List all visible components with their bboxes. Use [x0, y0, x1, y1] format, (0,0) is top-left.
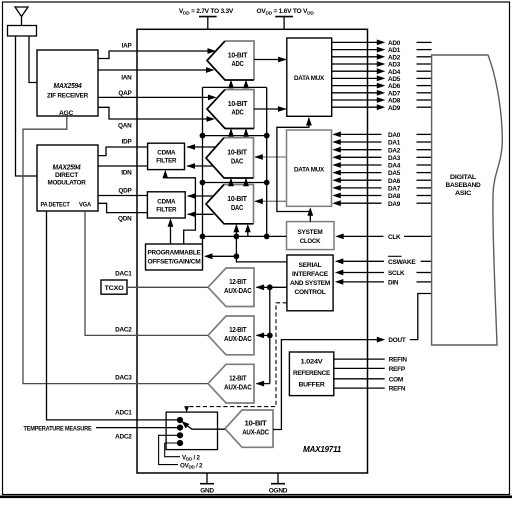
wire AD1 data mux U12 to ASIC	[332, 49, 378, 51]
wire duplexer to direct modulator	[16, 36, 38, 176]
CS overline	[388, 255, 402, 257]
svg-text:PA DETECT: PA DETECT	[41, 202, 70, 209]
direct modulator MAX2594	[37, 145, 98, 211]
arrow into FL1 lower	[187, 163, 196, 169]
aux dac feed vertical	[269, 287, 271, 383]
junction	[200, 133, 206, 139]
wire AD5 data mux U12 to ASIC	[332, 77, 378, 79]
wire data mux U13 to DAC U6	[255, 200, 287, 202]
clock riser into DAC U5 (right)	[245, 180, 247, 183]
clock riser into ADC U4 (right)	[245, 130, 247, 136]
svg-text:12-BIT: 12-BIT	[229, 375, 247, 382]
svg-text:AD0: AD0	[388, 40, 401, 47]
supply VDD rail symbol	[199, 16, 217, 18]
svg-text:10-BIT: 10-BIT	[227, 150, 248, 157]
svg-text:AGC: AGC	[59, 110, 74, 117]
svg-text:BASEBAND: BASEBAND	[446, 182, 481, 189]
data mux U13 (DAC side)	[287, 130, 332, 206]
clock bus top rail	[203, 86, 267, 88]
junction	[200, 180, 206, 186]
svg-text:COM: COM	[389, 376, 403, 383]
wire QDN with jog	[98, 203, 147, 212]
clock riser into ADC U3 (right)	[245, 82, 247, 88]
aux input switch box	[166, 412, 217, 450]
wire DA1 ASIC to data mux U13	[340, 141, 382, 143]
bottom page rule	[0, 496, 512, 499]
wire AD2 data mux U12 to ASIC	[332, 56, 378, 58]
wire serial U15 to AUX-DAC U8	[257, 286, 287, 288]
CDMA filter FL1	[148, 143, 185, 169]
arrow into ADC U4 (QAN)	[207, 116, 216, 122]
wire DIN	[342, 281, 384, 283]
svg-text:DA5: DA5	[388, 170, 401, 177]
AUX-DAC U8 pentagon	[208, 268, 254, 307]
svg-text:MAX2594: MAX2594	[53, 165, 81, 172]
svg-text:SYSTEM: SYSTEM	[298, 229, 324, 236]
duplexer/filter box	[8, 26, 37, 37]
svg-text:MAX19711: MAX19711	[303, 445, 342, 454]
svg-text:CONTROL: CONTROL	[295, 289, 326, 296]
arrow into FL1 upper	[187, 144, 196, 150]
svg-text:DA4: DA4	[388, 163, 401, 170]
svg-text:ZIF RECEIVER: ZIF RECEIVER	[47, 93, 89, 100]
svg-text:AD8: AD8	[388, 98, 401, 105]
clock riser into DAC U5 (left)	[230, 180, 232, 183]
svg-text:DA1: DA1	[388, 140, 401, 147]
wire REFIN	[334, 358, 385, 360]
wire OVDD/2 to switch	[159, 435, 178, 464]
wire VDD/2 to switch	[165, 443, 180, 457]
wire QAN with jog	[98, 107, 209, 119]
wire AGC to AUX-DAC U10 (DAC3)	[23, 117, 208, 384]
svg-text:AUX-DAC: AUX-DAC	[224, 288, 252, 295]
dashed control from serial U15 to switch	[187, 303, 287, 410]
svg-text:AUX-DAC: AUX-DAC	[224, 336, 252, 343]
svg-text:DA9: DA9	[388, 201, 401, 208]
ADC U4 pentagon	[207, 90, 254, 129]
svg-text:ADC1: ADC1	[115, 410, 132, 417]
clock riser into ADC U3 (left)	[230, 82, 232, 88]
wire temperature measure to switch	[96, 427, 177, 429]
svg-text:AD6: AD6	[388, 83, 401, 90]
svg-text:DA7: DA7	[388, 186, 401, 193]
svg-text:DA6: DA6	[388, 178, 401, 185]
svg-text:1.024V: 1.024V	[301, 359, 324, 366]
wire QAP	[98, 96, 210, 98]
svg-text:AUX-ADC: AUX-ADC	[242, 429, 269, 436]
junction	[264, 180, 270, 186]
svg-text:MAX2594: MAX2594	[54, 83, 82, 90]
svg-text:DIGITAL: DIGITAL	[450, 174, 476, 181]
AUX-DAC U10 pentagon	[208, 364, 254, 403]
wire COM	[334, 378, 385, 380]
svg-text:CLOCK: CLOCK	[300, 238, 321, 245]
svg-text:10-BIT: 10-BIT	[227, 196, 248, 203]
svg-text:DAC: DAC	[231, 205, 243, 212]
wire DAC U5 out P to FL1	[187, 146, 216, 148]
svg-text:AUX-DAC: AUX-DAC	[224, 384, 252, 391]
wire AD0 data mux U12 to ASIC	[332, 41, 378, 43]
svg-text:SCLK: SCLK	[388, 270, 405, 277]
svg-text:INTERFACE: INTERFACE	[292, 271, 329, 278]
wire DAC U5 out N to FL1	[187, 165, 213, 167]
wire data mux U13 to DAC U5	[255, 156, 287, 158]
svg-text:SERIAL: SERIAL	[299, 262, 322, 269]
svg-text:QAP: QAP	[118, 90, 132, 97]
data mux U12 (ADC side)	[287, 38, 332, 116]
wire AD9 data mux U12 to ASIC	[332, 106, 378, 108]
svg-text:IDN: IDN	[121, 170, 132, 177]
wire DA5 ASIC to data mux U13	[340, 172, 382, 174]
arrow into ADC U3 (IAP)	[208, 48, 217, 54]
arrow into ADC U3 (IAN)	[206, 67, 215, 73]
ground OGND	[277, 473, 279, 484]
svg-text:AD2: AD2	[388, 54, 401, 61]
clock bus left vertical	[202, 87, 204, 244]
wire programmable U7 to CDMA filter FL2	[170, 220, 172, 244]
svg-text:DA3: DA3	[388, 155, 401, 162]
wire DAC U6 out N to FL2	[188, 213, 214, 215]
svg-text:AD9: AD9	[388, 105, 401, 112]
wire QDP	[98, 195, 147, 197]
supply OVDD rail symbol	[275, 16, 293, 18]
svg-text:12-BIT: 12-BIT	[229, 279, 247, 286]
svg-text:QAN: QAN	[118, 123, 132, 130]
programmable offset/gain/cm U7	[146, 244, 203, 270]
ground GND	[206, 473, 208, 484]
wire DOUT from AUX-ADC U11 to ASIC	[273, 340, 377, 430]
junction	[267, 333, 273, 339]
ADC U3 pentagon	[207, 41, 254, 80]
TCXO X1	[101, 280, 127, 294]
svg-text:ASIC: ASIC	[455, 190, 472, 197]
wire CLK ASIC to system clock U14	[343, 235, 384, 237]
wire to programmable U7	[206, 255, 237, 257]
wire DA9 ASIC to data mux U13	[340, 202, 382, 204]
svg-text:CSWAKE: CSWAKE	[388, 259, 417, 266]
svg-text:REFERENCE: REFERENCE	[293, 370, 331, 377]
svg-text:DOUT: DOUT	[388, 337, 405, 344]
clock bus rail 2	[203, 135, 267, 137]
junction	[264, 234, 270, 240]
svg-text:REFP: REFP	[389, 366, 406, 373]
wire serial U15 to clock bus	[236, 236, 287, 262]
wire ADC U3 output to data mux U12	[254, 59, 286, 61]
svg-text:DIN: DIN	[388, 280, 399, 287]
svg-text:DAC1: DAC1	[115, 271, 132, 278]
digital baseband ASIC	[432, 55, 503, 345]
svg-text:CDMA: CDMA	[157, 198, 175, 205]
svg-text:10-BIT: 10-BIT	[228, 101, 249, 108]
svg-text:DIRECT: DIRECT	[55, 172, 78, 179]
wire DA2 ASIC to data mux U13	[340, 149, 382, 151]
wire DA4 ASIC to data mux U13	[340, 164, 382, 166]
svg-text:DA0: DA0	[388, 132, 401, 139]
svg-text:VDD / 2: VDD / 2	[182, 454, 200, 461]
antenna	[15, 7, 28, 17]
wire AD4 data mux U12 to ASIC	[332, 70, 378, 72]
wire IDP with jog	[98, 147, 148, 156]
wire AD6 data mux U12 to ASIC	[332, 85, 378, 87]
svg-text:IDP: IDP	[122, 139, 133, 146]
svg-text:ADC: ADC	[232, 110, 244, 117]
svg-text:12-BIT: 12-BIT	[229, 327, 247, 334]
wire AD7 data mux U12 to ASIC	[332, 92, 378, 94]
svg-text:PROGRAMMABLE: PROGRAMMABLE	[148, 250, 202, 257]
svg-text:ADC: ADC	[232, 61, 244, 68]
CDMA filter FL2	[147, 192, 185, 218]
wire TCXO to AUX-DAC U8 (DAC1)	[127, 286, 208, 288]
svg-text:OFFSET/GAIN/CM: OFFSET/GAIN/CM	[148, 259, 201, 266]
svg-text:BUFFER: BUFFER	[299, 382, 325, 389]
wire system clock to data mux U12	[277, 118, 310, 212]
clock riser into ADC U4 (left)	[230, 130, 232, 136]
junction	[200, 234, 206, 240]
svg-text:MODULATOR: MODULATOR	[48, 180, 87, 187]
system clock U14	[287, 222, 335, 250]
wire SCLK	[342, 272, 384, 274]
wire CSWAKE	[342, 260, 384, 262]
junction	[234, 234, 240, 240]
junction	[267, 284, 273, 290]
clock bus rail 4 to system clock	[203, 235, 287, 237]
arrow into ADC U4 (QAP)	[208, 95, 217, 101]
svg-text:AD1: AD1	[388, 47, 401, 54]
svg-text:10-BIT: 10-BIT	[245, 420, 268, 427]
svg-text:ADC2: ADC2	[115, 434, 132, 441]
svg-text:DA2: DA2	[388, 147, 401, 154]
svg-text:DATA MUX: DATA MUX	[294, 75, 325, 82]
svg-text:VGA: VGA	[79, 202, 92, 209]
svg-text:10-BIT: 10-BIT	[228, 52, 249, 59]
wire DAC U6 out P to FL2	[188, 195, 215, 197]
svg-text:TEMPERATURE MEASURE: TEMPERATURE MEASURE	[24, 425, 92, 432]
svg-text:AND SYSTEM: AND SYSTEM	[290, 280, 331, 287]
wire VGA to AUX-DAC U9 (DAC2)	[85, 211, 208, 335]
clock riser into DAC U6 (right)	[247, 226, 249, 237]
svg-text:GND: GND	[200, 488, 214, 495]
wire IDN	[98, 165, 148, 167]
svg-text:AD3: AD3	[388, 62, 401, 69]
svg-text:REFN: REFN	[389, 386, 406, 393]
clock riser into DAC U6 (left)	[235, 226, 237, 237]
svg-text:IAN: IAN	[121, 75, 132, 82]
wire DA8 ASIC to data mux U13	[340, 195, 382, 197]
svg-text:FILTER: FILTER	[156, 206, 176, 213]
svg-text:AD5: AD5	[388, 76, 401, 83]
wire DA3 ASIC to data mux U13	[340, 156, 382, 158]
svg-text:OGND: OGND	[269, 488, 288, 495]
serial interface U15	[287, 255, 333, 311]
wire DA7 ASIC to data mux U13	[340, 187, 382, 189]
svg-text:REFIN: REFIN	[389, 357, 408, 364]
clock bus right vertical	[266, 87, 268, 236]
junction	[234, 253, 240, 259]
wire programmable U7 to CDMA filter FL1	[165, 172, 195, 245]
svg-text:IAP: IAP	[122, 43, 133, 50]
svg-text:QDN: QDN	[118, 216, 132, 223]
wire AD8 data mux U12 to ASIC	[332, 99, 378, 101]
wire system clock to data mux U13	[309, 209, 311, 222]
MAX19711 chip boundary	[137, 29, 368, 473]
svg-text:DATA MUX: DATA MUX	[294, 167, 325, 174]
wire ADC U4 output to data mux U12	[254, 108, 286, 110]
AUX-DAC U9 pentagon	[208, 316, 254, 355]
svg-text:AD4: AD4	[388, 69, 401, 76]
wire AD3 data mux U12 to ASIC	[332, 63, 378, 65]
clock bus rail 3	[203, 182, 267, 184]
svg-text:DAC2: DAC2	[115, 327, 132, 334]
arrow into FL2 lower	[187, 211, 196, 217]
AUX-ADC U11 pentagon	[225, 410, 273, 447]
reference buffer U16	[289, 352, 333, 396]
svg-text:CDMA: CDMA	[157, 149, 175, 156]
ZIF receiver MAX2594	[37, 50, 98, 116]
wire to AUX-DAC U10	[257, 383, 270, 385]
wire switch to AUX-ADC U11	[192, 428, 226, 430]
DAC U6 pentagon	[206, 185, 254, 224]
svg-text:TCXO: TCXO	[105, 285, 124, 292]
switch arm	[182, 421, 190, 428]
DAC U5 pentagon	[206, 138, 254, 178]
svg-text:DAC3: DAC3	[115, 375, 132, 382]
junction	[264, 133, 270, 139]
svg-text:DA8: DA8	[388, 193, 401, 200]
wire to AUX-DAC U9	[257, 334, 270, 336]
svg-text:AD7: AD7	[388, 90, 401, 97]
wire REFN	[334, 387, 385, 389]
svg-text:CLK: CLK	[388, 234, 401, 241]
wire DA6 ASIC to data mux U13	[340, 179, 382, 181]
svg-text:QDP: QDP	[118, 188, 132, 195]
wire PA DETECT to switch (ADC1)	[47, 211, 178, 420]
wire duplexer to ZIF receiver	[29, 36, 37, 83]
wire IAP with jog	[98, 51, 208, 59]
wire REFP	[334, 367, 385, 369]
svg-text:DAC: DAC	[231, 158, 243, 165]
switch poles	[177, 417, 183, 423]
wire IAN	[98, 69, 209, 71]
arrow into FL2 upper	[187, 193, 196, 199]
svg-text:FILTER: FILTER	[156, 157, 176, 164]
wire DA0 ASIC to data mux U13	[340, 133, 382, 135]
